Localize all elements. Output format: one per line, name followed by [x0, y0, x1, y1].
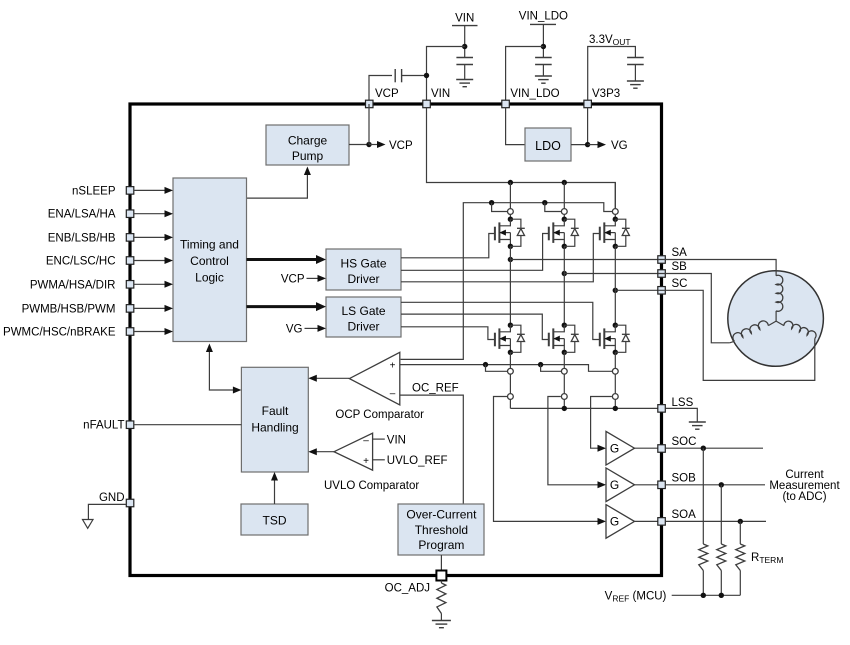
junction flying cap / VIN [424, 73, 429, 78]
svg-text:Control: Control [190, 254, 229, 268]
svg-text:VG: VG [286, 323, 303, 335]
wire SOB output [665, 482, 765, 487]
svg-text:LDO: LDO [535, 139, 561, 153]
pin SOA (right) [658, 509, 696, 525]
svg-text:VCP: VCP [389, 140, 413, 152]
svg-text:+: + [363, 456, 369, 467]
capacitor 3.3V_OUT [627, 58, 644, 82]
pin PWMC/HSC/nBRAKE (left) [3, 327, 173, 339]
pin VIN (top) [423, 88, 450, 108]
svg-text:Threshold: Threshold [415, 523, 468, 537]
net 3.3V_OUT [588, 34, 636, 104]
wire Timing/Fault link [206, 344, 242, 394]
svg-text:ENA/LSA/HA: ENA/LSA/HA [48, 209, 116, 221]
inductor motor winding A [776, 275, 783, 321]
svg-text:SOA: SOA [672, 509, 697, 521]
svg-text:(to ADC): (to ADC) [782, 491, 826, 503]
svg-text:Timing and: Timing and [180, 238, 239, 252]
capacitor VCP flying [395, 69, 426, 82]
wire LS Gate Driver out C [401, 302, 600, 339]
pin SB (right) [658, 261, 687, 277]
svg-text:TSD: TSD [263, 514, 287, 528]
ground VIN_LDO cap [535, 76, 552, 83]
svg-text:LS Gate: LS Gate [341, 304, 385, 318]
wire HS Gate Driver out C [401, 234, 600, 282]
svg-text:VIN: VIN [455, 13, 474, 25]
transistor QCL low-side C [600, 323, 630, 355]
svg-text:nFAULT: nFAULT [83, 420, 124, 432]
svg-text:OC_ADJ: OC_ADJ [385, 583, 430, 595]
wire HS Gate Driver out A [401, 234, 495, 258]
svg-text:3.3VOUT: 3.3VOUT [589, 34, 631, 47]
pin SOB (right) [658, 472, 696, 488]
resistor OC_ADJ [437, 581, 446, 621]
wire TSD to Fault Handling [271, 472, 278, 504]
wire LS Gate Driver out B [401, 314, 549, 339]
resistor RTERM 3 [736, 521, 745, 595]
block LS Gate Driver [326, 297, 401, 337]
pin OC_ADJ (bottom) [385, 571, 447, 595]
op-amp G amplifier SOA [598, 505, 658, 539]
wire VREF rail [672, 593, 741, 598]
comparator OCP [308, 352, 400, 405]
svg-text:ENC/LSC/HC: ENC/LSC/HC [46, 256, 116, 268]
ground OC_ADJ resistor [432, 620, 451, 622]
svg-text:nSLEEP: nSLEEP [72, 185, 116, 197]
wire OC_REF [400, 383, 464, 505]
block TSD [241, 504, 308, 535]
svg-text:OCP Comparator: OCP Comparator [335, 409, 424, 421]
svg-text:Driver: Driver [348, 272, 380, 286]
svg-text:VIN_LDO: VIN_LDO [510, 88, 559, 100]
svg-text:G: G [610, 515, 619, 529]
motor BLDC circle [728, 271, 824, 367]
wire SC to motor [658, 290, 815, 380]
pin ENB/LSB/HB (left) [48, 232, 173, 244]
pin SC (right) [658, 278, 688, 294]
svg-text:VIN: VIN [431, 88, 450, 100]
inductor motor winding B [730, 321, 776, 343]
svg-text:LSS: LSS [672, 397, 694, 409]
svg-text:VCP: VCP [375, 88, 399, 100]
ground 3.3V_OUT cap [627, 81, 644, 88]
transistor QBL low-side B [549, 323, 579, 355]
svg-text:HS Gate: HS Gate [340, 257, 386, 271]
svg-text:SC: SC [672, 278, 688, 290]
svg-text:VREF (MCU): VREF (MCU) [605, 591, 667, 604]
svg-text:Over-Current: Over-Current [406, 508, 477, 522]
wire SA to motor [658, 260, 776, 276]
wire phase SB [562, 246, 658, 325]
pin V3P3 (top) [584, 88, 620, 108]
svg-text:SB: SB [672, 261, 688, 273]
block Timing and Control Logic U-TCL [173, 178, 247, 342]
transistor QCH high-side C [600, 217, 630, 250]
pin nFAULT (left) [83, 420, 241, 432]
svg-text:UVLO Comparator: UVLO Comparator [324, 480, 419, 492]
ground VIN cap [456, 80, 473, 87]
wire VIN rail to bridge [427, 108, 616, 209]
bus Timing to LS Gate Driver [247, 302, 327, 311]
inductor motor winding C [776, 321, 816, 338]
wire VIN_LDO pin to LDO [506, 108, 525, 145]
node HS gate terminal B [561, 183, 567, 220]
svg-text:VG: VG [611, 140, 628, 152]
pin ENA/LSA/HA (left) [48, 209, 173, 221]
wire SOA output [665, 519, 766, 524]
svg-text:G: G [610, 478, 619, 492]
wire Charge Pump output to VCP [349, 104, 413, 152]
pin GND (left) [88, 492, 133, 520]
svg-text:GND: GND [99, 492, 125, 504]
ground GND arrow symbol [83, 520, 94, 529]
op-amp G amplifier SOC [598, 431, 658, 465]
svg-text:Driver: Driver [348, 320, 380, 334]
transistor QBH high-side B [549, 217, 579, 250]
regulator LDO U-LDO [525, 128, 571, 161]
node HS gate terminal C [612, 183, 618, 220]
op-amp G amplifier SOB [598, 468, 658, 502]
wire sense A to amp SOA [494, 397, 599, 522]
input VG to LS Gate Driver [286, 323, 326, 335]
svg-text:PWMA/HSA/DIR: PWMA/HSA/DIR [30, 279, 116, 291]
wire HS Gate Driver out B [401, 234, 549, 271]
svg-text:UVLO_REF: UVLO_REF [387, 455, 448, 467]
svg-text:Fault: Fault [262, 404, 289, 418]
svg-text:+: + [390, 361, 396, 372]
resistor RTERM 1 [699, 448, 708, 595]
comparator UVLO [308, 433, 447, 470]
svg-text:SA: SA [672, 247, 688, 259]
ground LSS [666, 408, 706, 429]
svg-text:VIN: VIN [387, 434, 406, 446]
node HS gate terminal A [508, 183, 514, 220]
svg-text:Pump: Pump [292, 149, 324, 163]
wire LSS rail [510, 406, 657, 411]
node LS sense terminals B [561, 352, 567, 408]
svg-text:VCP: VCP [281, 273, 305, 285]
pin LSS (right) [658, 397, 694, 412]
pin VIN_LDO (top) [502, 88, 560, 108]
transistor QAL low-side A [495, 323, 525, 355]
wire sense C to amp SOC [591, 397, 612, 449]
svg-text:PWMC/HSC/nBRAKE: PWMC/HSC/nBRAKE [3, 327, 116, 339]
svg-text:RTERM: RTERM [751, 552, 783, 565]
wire SB to motor [658, 274, 730, 343]
block Fault Handling [241, 367, 308, 472]
block Charge Pump [266, 125, 349, 165]
block HS Gate Driver [326, 249, 401, 290]
wire Timing to Charge Pump [247, 167, 311, 199]
wire OCP sense to LS terminals [400, 362, 612, 371]
wire phase SC [613, 246, 658, 325]
capacitor VIN bypass [456, 58, 473, 80]
pin PWMA/HSA/DIR (left) [30, 279, 173, 291]
svg-text:–: – [390, 389, 396, 400]
net VIN supply [427, 13, 478, 105]
pin SA (right) [658, 247, 687, 263]
input VCP to HS Gate Driver [281, 273, 326, 285]
pin SOC (right) [658, 436, 697, 452]
svg-text:V3P3: V3P3 [592, 88, 620, 100]
wire LDO output / V3P3 [571, 108, 590, 148]
wire OC block to OC_ADJ pin [440, 555, 442, 571]
net VIN_LDO supply [506, 11, 568, 105]
wire LS Gate Driver out A [401, 327, 495, 340]
svg-text:G: G [610, 441, 619, 455]
resistor RTERM 2 [717, 485, 726, 596]
svg-text:–: – [363, 435, 369, 446]
svg-text:SOC: SOC [672, 436, 697, 448]
wire phase SA [508, 246, 658, 325]
pin ENC/LSC/HC (left) [46, 256, 173, 268]
transistor QAH high-side A [495, 217, 525, 250]
svg-text:ENB/LSB/HB: ENB/LSB/HB [48, 232, 116, 244]
svg-text:PWMB/HSB/PWM: PWMB/HSB/PWM [22, 303, 116, 315]
node LS sense terminals A [508, 352, 514, 408]
svg-text:Program: Program [418, 538, 464, 552]
wire sense B to amp SOB [548, 397, 598, 485]
svg-text:Charge: Charge [288, 134, 328, 148]
capacitor VIN_LDO bypass [535, 58, 552, 77]
main device box [130, 104, 662, 576]
node LS sense terminals C [612, 352, 618, 408]
wire SOC output [665, 446, 763, 451]
wire VCP pin to flying capacitor [369, 76, 392, 105]
svg-text:VIN_LDO: VIN_LDO [519, 11, 568, 23]
pin PWMB/HSB/PWM (left) [22, 303, 173, 315]
node VG output arrow [588, 140, 628, 152]
pin VCP (top) [366, 88, 399, 108]
svg-text:Handling: Handling [251, 421, 298, 435]
pin nSLEEP (left) [72, 185, 173, 197]
wire HS drain-sense network [401, 200, 613, 359]
svg-text:Logic: Logic [195, 271, 224, 285]
bus Timing to HS Gate Driver [247, 255, 327, 264]
label Current Measurement (to ADC) [769, 469, 840, 503]
svg-text:OC_REF: OC_REF [412, 383, 459, 395]
svg-text:SOB: SOB [672, 472, 697, 484]
block Over-Current Threshold Program [398, 504, 484, 555]
